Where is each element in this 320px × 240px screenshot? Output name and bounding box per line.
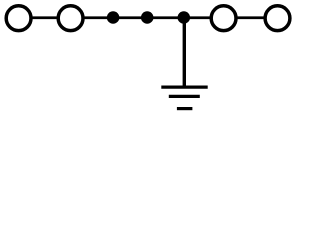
terminal circle 1	[6, 6, 31, 31]
wire: main horizontal rail	[19, 16, 278, 19]
junction dot 1	[107, 11, 120, 24]
wire: vertical drop to ground	[183, 18, 186, 87]
ground	[161, 87, 207, 109]
junction dot 3 (ground tap)	[178, 11, 191, 24]
terminal circle 4	[265, 6, 290, 31]
terminal circle 3	[211, 6, 236, 31]
junction dot 2	[141, 11, 154, 24]
terminal circle 2	[58, 6, 83, 31]
